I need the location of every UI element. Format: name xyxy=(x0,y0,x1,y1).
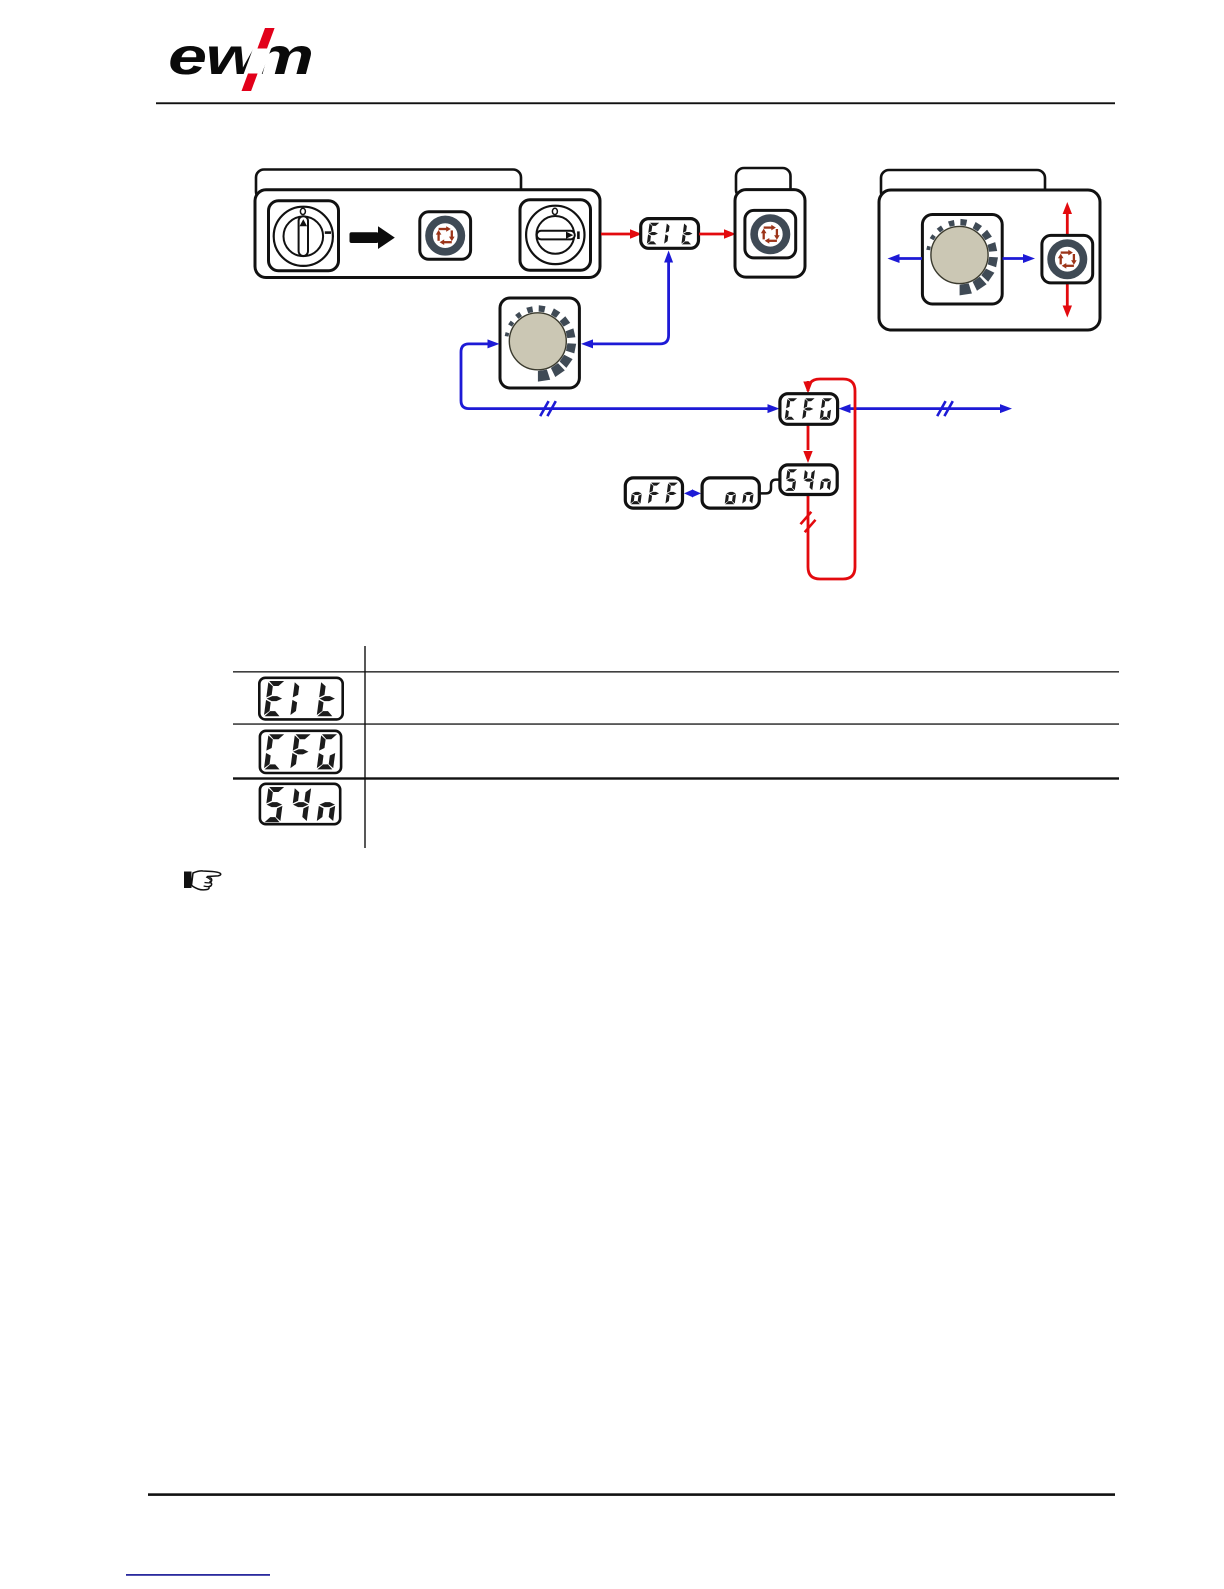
push button B1 xyxy=(420,212,471,259)
blue arrow oFF-on xyxy=(684,489,701,497)
display S4n xyxy=(780,465,837,495)
footer link underline xyxy=(126,1574,270,1576)
table rule 1 xyxy=(233,671,1119,672)
blue wire CFG-right xyxy=(839,401,1013,416)
panel 1 tab xyxy=(256,170,521,200)
push button B2 xyxy=(745,210,796,258)
footer rule xyxy=(148,1493,1115,1496)
display CFG xyxy=(780,394,838,425)
connector on-S4n xyxy=(760,480,780,494)
red loop xyxy=(801,379,856,579)
red arrow to button xyxy=(699,229,736,238)
panel 3 body xyxy=(879,190,1100,330)
table rule 2 xyxy=(233,723,1119,724)
blue wire knob-CFG xyxy=(461,339,780,416)
ewm logo xyxy=(168,28,314,91)
table display S4n xyxy=(260,784,340,824)
blue horizontal double arrow xyxy=(888,254,1036,263)
knob K2 xyxy=(500,298,579,388)
rotary switch S1 xyxy=(269,201,339,271)
blue wire EIt-knob xyxy=(581,251,673,349)
table rule 3 xyxy=(233,777,1119,779)
header rule xyxy=(156,102,1115,104)
knob K1 xyxy=(922,215,1002,305)
panel 2 tab xyxy=(736,168,791,198)
table display CFG xyxy=(260,731,341,773)
display on xyxy=(702,478,759,508)
push button B3 xyxy=(1042,235,1093,283)
table display EIt xyxy=(259,678,342,720)
manicule note icon xyxy=(184,871,221,890)
panel 2 body xyxy=(735,190,805,278)
table vertical rule xyxy=(364,646,365,848)
display oFF xyxy=(625,478,682,508)
panel 1 body xyxy=(255,190,600,278)
rotary switch S2 xyxy=(520,200,591,270)
bold arrow xyxy=(350,226,395,249)
red vertical double arrow xyxy=(1063,202,1072,318)
panel 3 tab xyxy=(881,170,1045,200)
red arrow to EIt xyxy=(601,229,642,238)
display EIt xyxy=(641,219,699,249)
